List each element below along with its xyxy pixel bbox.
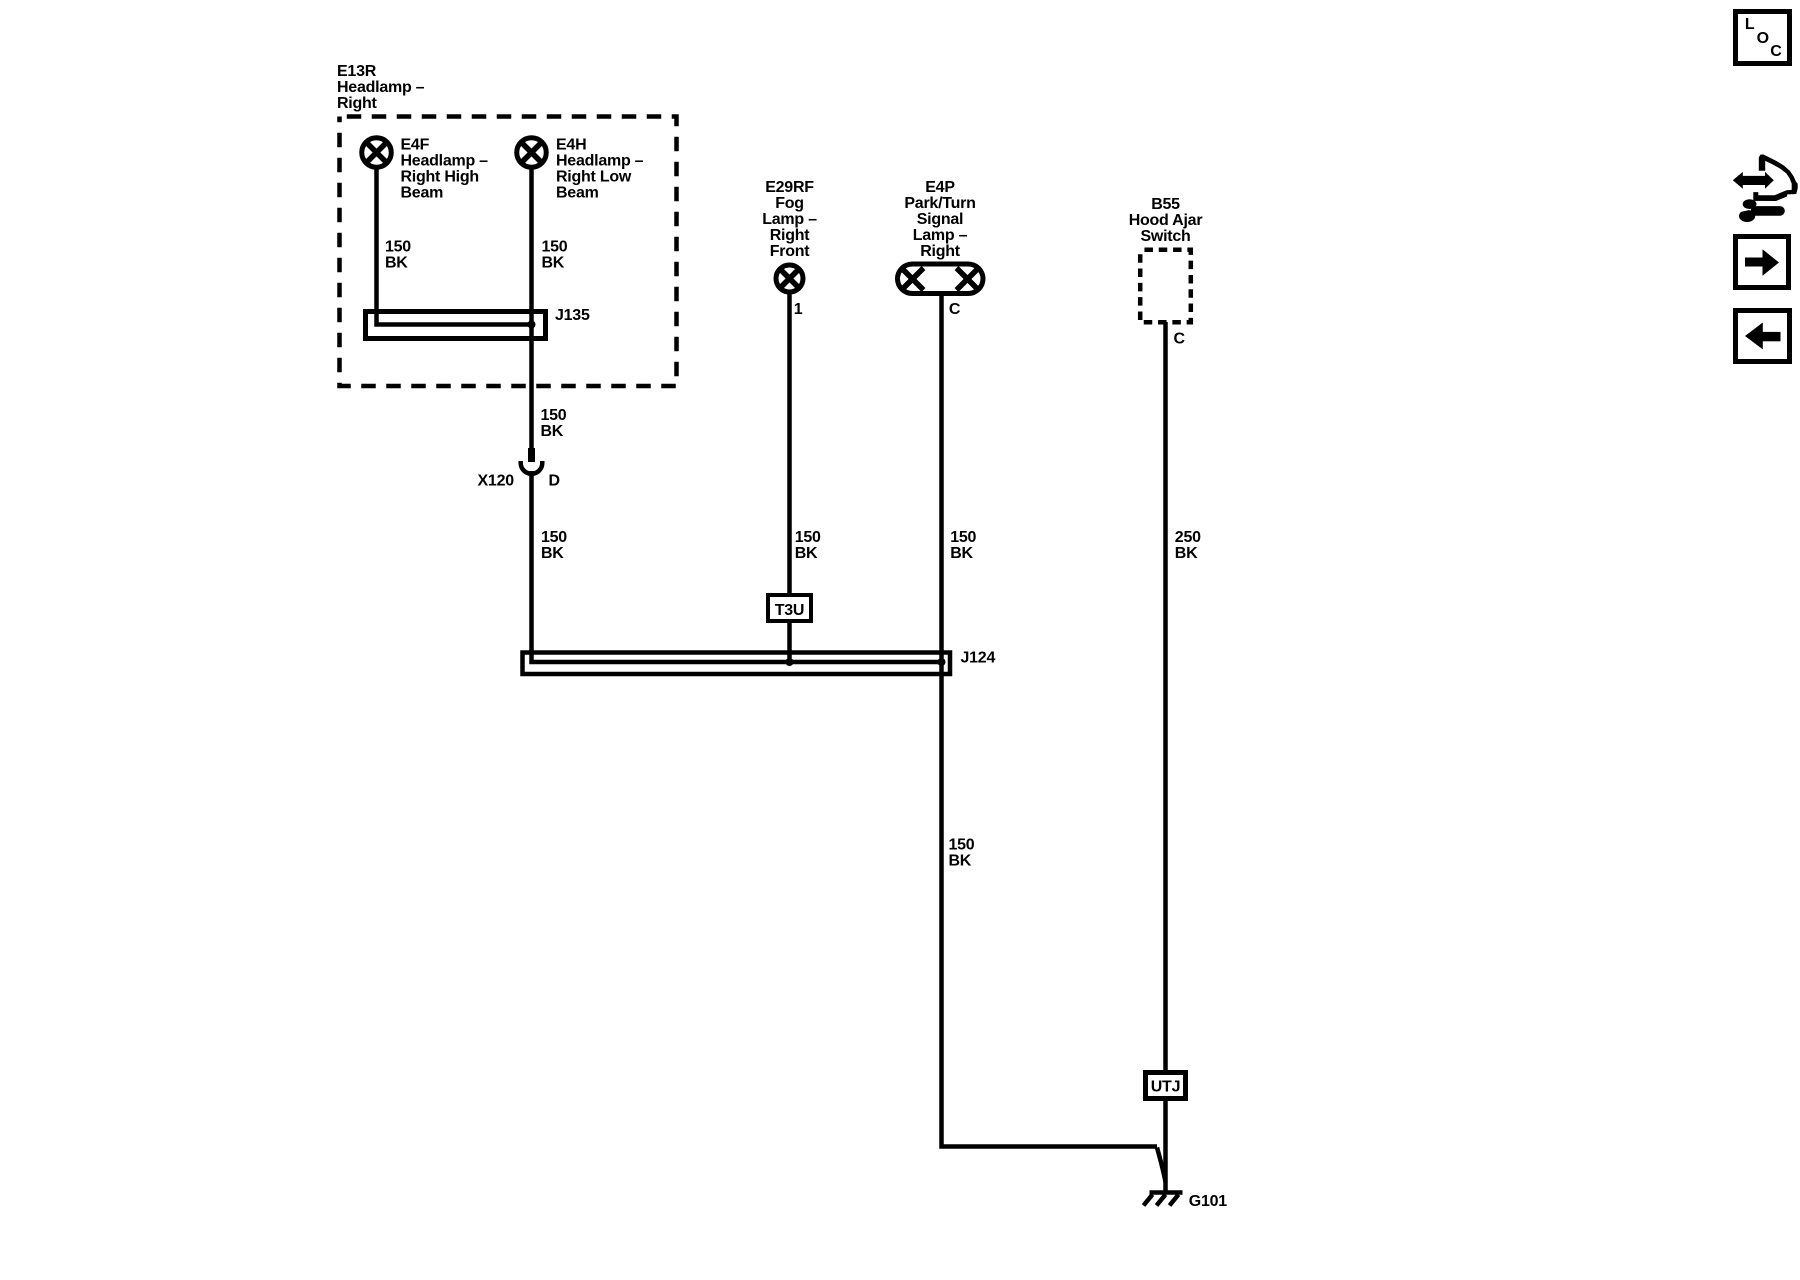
svg-text:C: C	[1174, 331, 1186, 348]
svg-text:J135: J135	[555, 307, 590, 324]
svg-text:Right Low: Right Low	[556, 169, 632, 186]
svg-text:O: O	[1757, 30, 1769, 47]
svg-text:J124: J124	[961, 650, 996, 667]
svg-text:BK: BK	[542, 254, 565, 271]
svg-text:C: C	[949, 301, 961, 318]
svg-text:C: C	[1770, 43, 1782, 60]
svg-text:BK: BK	[1175, 545, 1198, 562]
svg-text:Beam: Beam	[401, 185, 444, 202]
svg-text:Switch: Switch	[1140, 228, 1190, 245]
svg-text:Lamp –: Lamp –	[762, 211, 817, 228]
svg-text:250: 250	[1175, 529, 1201, 546]
svg-text:B55: B55	[1151, 196, 1180, 213]
svg-text:UTJ: UTJ	[1151, 1079, 1180, 1096]
svg-text:Right: Right	[337, 95, 378, 112]
svg-text:G101: G101	[1189, 1193, 1227, 1210]
svg-text:150: 150	[541, 407, 567, 424]
svg-text:E29RF: E29RF	[765, 179, 814, 196]
svg-text:D: D	[549, 473, 560, 490]
svg-text:Lamp –: Lamp –	[913, 227, 968, 244]
svg-text:L: L	[1745, 16, 1755, 33]
svg-text:T3U: T3U	[775, 602, 804, 619]
svg-text:Signal: Signal	[917, 211, 964, 228]
svg-text:BK: BK	[795, 545, 818, 562]
svg-text:150: 150	[795, 529, 821, 546]
svg-text:BK: BK	[385, 254, 408, 271]
svg-text:Right High: Right High	[401, 169, 479, 186]
svg-text:150: 150	[949, 836, 975, 853]
svg-text:150: 150	[385, 239, 411, 256]
svg-text:E4H: E4H	[556, 137, 586, 154]
svg-text:Hood Ajar: Hood Ajar	[1129, 212, 1203, 229]
svg-text:150: 150	[542, 239, 568, 256]
svg-text:150: 150	[541, 529, 567, 546]
svg-text:E13R: E13R	[337, 63, 377, 80]
svg-text:E4P: E4P	[925, 179, 955, 196]
svg-text:BK: BK	[949, 852, 972, 869]
svg-text:1: 1	[794, 301, 803, 318]
svg-text:Front: Front	[770, 243, 811, 260]
svg-text:BK: BK	[541, 545, 564, 562]
svg-text:E4F: E4F	[401, 137, 430, 154]
svg-text:Headlamp –: Headlamp –	[337, 79, 425, 96]
svg-text:Headlamp –: Headlamp –	[556, 153, 644, 170]
svg-text:BK: BK	[541, 423, 564, 440]
svg-text:Fog: Fog	[775, 195, 804, 212]
svg-text:Headlamp –: Headlamp –	[401, 153, 489, 170]
svg-text:BK: BK	[950, 545, 973, 562]
svg-text:Right: Right	[920, 243, 961, 260]
svg-text:Park/Turn: Park/Turn	[904, 195, 975, 212]
svg-text:Right: Right	[770, 227, 811, 244]
svg-text:Beam: Beam	[556, 185, 599, 202]
svg-text:150: 150	[950, 529, 976, 546]
svg-text:X120: X120	[478, 473, 515, 490]
